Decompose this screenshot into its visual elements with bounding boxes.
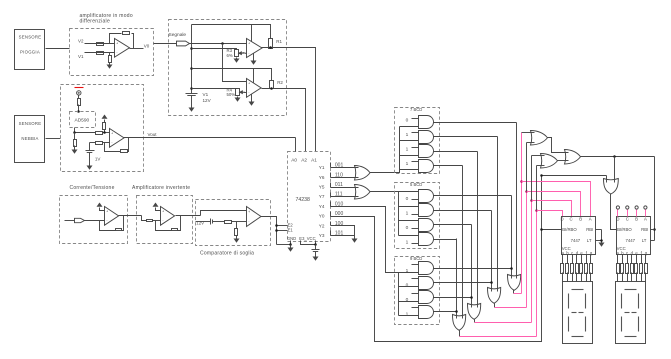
wire 9 BCD feeder xyxy=(398,273,400,316)
pin GND wire xyxy=(290,241,292,245)
wire 9 BCD feeder branch xyxy=(399,301,419,303)
wire resistor to AD590 xyxy=(78,105,80,112)
wire V0 output xyxy=(130,48,144,50)
wire ORD2 out to chip2 xyxy=(611,194,617,230)
svg-text:BI/RBO: BI/RBO xyxy=(562,227,577,232)
block box comparators Segnale xyxy=(169,20,287,116)
constant 1 stub xyxy=(412,161,419,163)
wire rail top to R1 xyxy=(192,25,271,39)
battery 12V xyxy=(210,219,212,225)
wire Y4 to 9BCD select xyxy=(331,207,419,273)
op-amp U6 inverting xyxy=(161,207,175,226)
resistor segment a xyxy=(617,264,620,274)
wire vcc to resistor xyxy=(104,120,106,123)
ground xyxy=(249,102,255,106)
junction xyxy=(314,243,317,246)
svg-text:Y1: Y1 xyxy=(319,165,325,170)
wire R3 wiper to minus xyxy=(243,53,247,54)
svg-text:0: 0 xyxy=(406,118,409,124)
svg-text:RBI: RBI xyxy=(641,227,648,232)
net label 001 xyxy=(330,163,332,168)
wire chip1 RBI xyxy=(596,229,602,231)
decoder 7447 U9 xyxy=(617,217,651,255)
ground xyxy=(251,61,257,65)
wire Y7 to OR2 xyxy=(331,196,359,198)
svg-text:E1: E1 xyxy=(288,228,294,233)
wire net0 to pin D xyxy=(537,211,563,217)
resistor threshold xyxy=(225,221,232,224)
svg-text:-: - xyxy=(162,219,163,223)
op-amp U5 current to voltage xyxy=(105,207,119,226)
wire 7 BCD feeder branch xyxy=(400,155,419,157)
svg-text:V0: V0 xyxy=(144,43,150,48)
constant 0 stub xyxy=(412,199,419,201)
wire U4 supply xyxy=(253,69,255,83)
or-gate ORBt tens logic xyxy=(541,154,558,169)
wire AD590 out xyxy=(75,128,96,133)
wire net1 to pin C xyxy=(532,201,572,217)
wire net0 to ORBt bottom xyxy=(537,165,545,167)
wire 5 BCD feeder xyxy=(398,192,400,236)
wire ORB out xyxy=(474,320,476,323)
svg-text:7447: 7447 xyxy=(626,238,636,243)
junction xyxy=(270,87,273,90)
resistor feedback U5 xyxy=(116,229,122,231)
wire port to U5 minus xyxy=(85,220,105,222)
wire net1 pink column xyxy=(531,201,533,323)
wire col 5out3 down xyxy=(471,225,473,308)
svg-text:12V: 12V xyxy=(203,98,212,103)
and-gate 5 BCD bit0 xyxy=(419,190,434,203)
wire col 7out1 down xyxy=(516,123,518,279)
constant 1 stub xyxy=(412,264,419,266)
svg-text:+: + xyxy=(116,42,118,46)
resistor segment c xyxy=(571,264,574,274)
wire segment pin d xyxy=(576,255,578,264)
resistor series plus xyxy=(96,132,103,135)
wire ORBt out xyxy=(558,160,569,162)
svg-text:V2: V2 xyxy=(78,39,84,44)
svg-text:Y4: Y4 xyxy=(319,204,325,209)
ground xyxy=(352,239,358,243)
wire 7 BCD out0 xyxy=(434,122,517,124)
ground xyxy=(189,108,195,112)
pin stub C xyxy=(627,210,629,217)
wire minus input xyxy=(90,142,96,144)
block box misura temperatura xyxy=(61,85,144,172)
pin VCC wire xyxy=(315,241,317,245)
wire ORCt out to RBI xyxy=(581,156,655,158)
svg-text:1: 1 xyxy=(406,147,409,153)
wire Y3 unused xyxy=(331,235,355,237)
junction xyxy=(470,296,473,299)
wire ORA out xyxy=(459,331,461,337)
constant 0 stub xyxy=(412,278,419,280)
wire net1 to ORBt top xyxy=(532,155,545,157)
wire 7 BCD out2 xyxy=(434,151,478,153)
junction xyxy=(190,47,193,50)
svg-text:A: A xyxy=(644,217,647,222)
svg-text:-: - xyxy=(106,219,107,223)
wire 7 BCD out1 xyxy=(434,136,498,138)
wire col 7out2 down xyxy=(497,137,499,292)
wire 5 BCD feeder branch xyxy=(399,235,419,237)
constant 0 stub xyxy=(412,228,419,230)
wire 5 BCD feeder branch xyxy=(399,220,419,222)
svg-text:A: A xyxy=(589,217,592,222)
wire U1 minus to resistor xyxy=(109,53,111,56)
wire col 7out4 down xyxy=(462,166,464,319)
svg-text:Y2: Y2 xyxy=(319,223,325,228)
op-amp U1 differential xyxy=(115,39,130,58)
wire segment pin c xyxy=(572,255,574,264)
junction xyxy=(535,209,538,212)
junction xyxy=(525,190,528,193)
constant 1 stub xyxy=(412,307,419,309)
svg-text:6%: 6% xyxy=(227,53,233,58)
wire to display xyxy=(636,273,638,282)
and-gate 5 BCD bit3 xyxy=(419,233,434,246)
decoder 74238 box xyxy=(288,152,331,242)
or-gate ORB digit bit1 xyxy=(468,304,481,320)
pin E2 wire xyxy=(277,225,288,227)
and-gate 5 BCD bit1 xyxy=(419,204,434,217)
svg-text:+: + xyxy=(248,82,250,86)
block box 7 BCD xyxy=(395,108,440,174)
battery V1 12V xyxy=(186,93,198,95)
or-gate ORD2 blanking xyxy=(603,179,618,195)
svg-text:1: 1 xyxy=(406,311,409,317)
wire segment pin b xyxy=(622,255,624,264)
svg-text:-: - xyxy=(248,51,249,55)
resistor feedback U2 xyxy=(121,150,128,153)
junction xyxy=(520,180,523,183)
pin stub A xyxy=(645,210,647,217)
svg-text:V1: V1 xyxy=(203,92,209,97)
resistor segment b xyxy=(566,264,569,274)
wire segment pin f xyxy=(641,255,643,264)
net label 000 xyxy=(330,212,332,217)
wire segment pin b xyxy=(567,255,569,264)
wire battery stub xyxy=(196,221,211,223)
svg-text:differenziale: differenziale xyxy=(80,19,111,25)
svg-text:D: D xyxy=(616,217,619,222)
constant 1 stub xyxy=(412,132,419,134)
and-gate 7 BCD bit3 xyxy=(419,160,434,173)
svg-text:-: - xyxy=(111,141,112,145)
wire U6 out xyxy=(176,215,201,217)
wire segment pin a xyxy=(562,255,564,264)
wire net3 to pin A xyxy=(522,182,591,217)
wire Y0 net to chip1 BI xyxy=(542,229,562,231)
wire vcc to plus xyxy=(156,208,161,211)
wire V+ rail xyxy=(191,25,193,94)
wire col 5out2 down xyxy=(491,211,493,292)
sensor box SENSORE NEBBIA xyxy=(15,116,45,163)
wire Y0 net branch to ORD2 xyxy=(542,175,607,177)
svg-text:+: + xyxy=(162,210,164,214)
svg-text:RBI: RBI xyxy=(586,227,593,232)
junction xyxy=(77,110,80,113)
resistor to ground xyxy=(74,140,77,147)
wire net0 pink column xyxy=(536,211,538,337)
svg-text:E3_VCC: E3_VCC xyxy=(299,236,315,241)
and-gate 9 BCD bit0 xyxy=(419,262,434,275)
wire to U6 xyxy=(153,220,161,222)
or-gate ORAt tens logic xyxy=(531,131,548,146)
wire net2 upper xyxy=(526,143,528,192)
wire RBI column chip2 xyxy=(654,157,656,241)
svg-text:GND: GND xyxy=(287,236,296,241)
wire col 5out1 down xyxy=(511,196,513,279)
ground xyxy=(234,239,240,243)
ground xyxy=(288,248,294,252)
display 7-segment xyxy=(616,282,646,344)
decoder 7447 U8 xyxy=(562,217,596,255)
wire net1 upper xyxy=(531,156,533,201)
wire segment pin e xyxy=(581,255,583,264)
junction xyxy=(510,267,513,270)
wire 9 BCD out0 xyxy=(434,268,512,270)
pin stub D xyxy=(617,210,619,217)
wire col 5out4 down xyxy=(456,239,458,319)
wire R4 wiper to minus xyxy=(244,92,247,94)
wire V1 input xyxy=(85,52,115,54)
ground xyxy=(235,98,241,102)
vcc arrow U6 plus xyxy=(153,203,159,207)
wire Y1 to OR1 xyxy=(331,167,359,169)
wire feedback U5 xyxy=(100,221,116,231)
junction xyxy=(540,174,543,177)
svg-text:Y6: Y6 xyxy=(319,175,325,180)
resistor segment d xyxy=(631,264,634,274)
resistor R1 xyxy=(269,39,273,49)
svg-text:LT: LT xyxy=(587,238,592,243)
resistor segment e xyxy=(635,264,638,274)
power supply red mark xyxy=(75,87,84,89)
wire to display xyxy=(590,273,592,282)
wire battery to resistor xyxy=(213,221,225,223)
wire into port xyxy=(154,43,177,45)
svg-text:C: C xyxy=(626,217,629,222)
wire U3 minus supply xyxy=(253,54,255,61)
wire U5 out xyxy=(119,215,142,217)
svg-text:B: B xyxy=(579,217,582,222)
wire to ground xyxy=(236,236,238,239)
svg-text:A1: A1 xyxy=(311,158,317,163)
wire to display xyxy=(645,273,647,282)
wire vcc to plus xyxy=(100,208,105,211)
svg-text:+: + xyxy=(248,210,250,214)
wire net0 upper xyxy=(536,166,538,211)
svg-text:SENSORE: SENSORE xyxy=(19,34,42,39)
resistor segment f xyxy=(640,264,643,274)
wire 7 BCD feeder branch xyxy=(400,169,419,171)
and-gate 7 BCD bit2 xyxy=(419,145,434,158)
ground xyxy=(72,150,78,154)
svg-text:Segnale: Segnale xyxy=(169,32,187,38)
wire ORD out pink xyxy=(514,293,522,295)
svg-text:D: D xyxy=(560,217,563,222)
svg-text:-: - xyxy=(248,220,249,224)
svg-text:Corrente/Tensione: Corrente/Tensione xyxy=(70,185,115,191)
wire chip1 LT xyxy=(596,240,602,242)
wire to display xyxy=(627,273,629,282)
svg-text:R1: R1 xyxy=(276,39,282,44)
junction xyxy=(613,155,616,158)
op-amp comparator U4 xyxy=(247,79,262,98)
battery 1V xyxy=(89,143,91,151)
wire 7 BCD out3 xyxy=(434,165,463,167)
resistor segment a xyxy=(561,264,564,274)
or-gate ORC digit bit2 xyxy=(488,288,501,304)
resistor series minus xyxy=(96,142,103,145)
resistor segment c xyxy=(626,264,629,274)
junction xyxy=(540,228,543,231)
ground xyxy=(107,65,113,69)
wire 9 BCD out1 xyxy=(434,282,492,284)
wire U4 output to A2 xyxy=(262,89,306,152)
junction xyxy=(653,228,656,231)
junction xyxy=(269,46,272,49)
wire sensore nebbia to block xyxy=(46,138,61,140)
wire to display xyxy=(572,273,574,282)
wire to display xyxy=(617,273,619,282)
wire 5 BCD out2 xyxy=(434,224,472,226)
wire to display xyxy=(567,273,569,282)
resistor to ground U1 xyxy=(109,56,112,63)
block box amplificatore invertente xyxy=(137,196,193,244)
svg-text:+: + xyxy=(248,42,250,46)
wire ORD2 left input xyxy=(606,176,608,183)
resistor segment f xyxy=(585,264,588,274)
svg-text:-: - xyxy=(116,50,117,54)
wire to display xyxy=(576,273,578,282)
svg-text:R2: R2 xyxy=(277,80,283,85)
resistor R2 xyxy=(270,81,274,89)
svg-text:AD590: AD590 xyxy=(75,117,90,123)
resistor input U6 xyxy=(147,220,153,222)
and-gate 9 BCD bit1 xyxy=(419,277,434,290)
svg-text:9 BCD: 9 BCD xyxy=(410,256,422,261)
or-gate OR2 Y5+Y7 xyxy=(355,185,371,200)
wire net2 to ORA bottom xyxy=(527,142,535,144)
resistor bias AD590 xyxy=(78,99,81,106)
wire segment pin g xyxy=(645,255,647,264)
svg-text:50%: 50% xyxy=(227,92,236,97)
wire segment pin e xyxy=(636,255,638,264)
wire 5 BCD out3 xyxy=(434,239,457,241)
display 7-segment xyxy=(563,282,593,344)
wire feedback U2 xyxy=(105,143,121,152)
wire down to resistor xyxy=(74,133,76,140)
and-gate 7 BCD bit1 xyxy=(419,131,434,144)
and-gate 7 BCD bit0 xyxy=(419,116,434,129)
block box 5 BCD xyxy=(395,183,440,249)
op-amp U2 temperature xyxy=(110,129,125,148)
potentiometer R4 50% xyxy=(236,89,240,96)
svg-text:1V: 1V xyxy=(95,157,101,162)
wire chip1 RBI/LT down xyxy=(601,230,603,243)
net label 111 xyxy=(330,193,332,197)
block box 9 BCD xyxy=(395,257,440,325)
wire to display xyxy=(586,273,588,282)
wire OR2 out to 5BCD xyxy=(370,191,419,193)
svg-text:0: 0 xyxy=(406,196,409,202)
wire 9 BCD out3 xyxy=(434,311,457,313)
wire net2 pink column xyxy=(526,192,528,308)
ground xyxy=(87,166,93,170)
svg-text:NEBBIA: NEBBIA xyxy=(21,136,38,141)
svg-text:Y7: Y7 xyxy=(319,194,325,199)
resistor feedback U1 xyxy=(123,32,130,35)
junction xyxy=(275,224,278,227)
net label 011 xyxy=(330,183,332,188)
wire net3 to ORA top xyxy=(522,132,535,134)
svg-text:PIOGGIA: PIOGGIA xyxy=(20,49,40,54)
wire rail to R2 xyxy=(192,69,272,81)
wire ORC out xyxy=(494,304,496,308)
svg-text:5 BCD: 5 BCD xyxy=(410,182,422,187)
wire port to comparator plus xyxy=(190,43,247,45)
wire 5 BCD feeder branch xyxy=(399,206,419,208)
wire enables to gnd node xyxy=(277,244,291,246)
wire divider down xyxy=(236,222,238,229)
svg-text:0: 0 xyxy=(406,225,409,231)
resistor segment d xyxy=(576,264,579,274)
wire ORA out pink xyxy=(460,336,537,338)
potentiometer R3 6% xyxy=(235,50,239,57)
wire segment pin f xyxy=(586,255,588,264)
svg-text:0: 0 xyxy=(406,282,409,288)
wire U3 output to A1 xyxy=(262,48,316,152)
svg-text:A0: A0 xyxy=(291,158,297,163)
op-amp comparator U7 threshold xyxy=(247,207,262,227)
junction xyxy=(530,199,533,202)
svg-text:74238: 74238 xyxy=(296,197,311,203)
svg-text:12V: 12V xyxy=(196,220,204,225)
wire 7 BCD feeder branch xyxy=(400,126,419,128)
and-gate 5 BCD bit2 xyxy=(419,219,434,232)
net label 110 xyxy=(330,173,332,178)
wire to ground xyxy=(74,146,76,150)
wire R2 to output xyxy=(271,88,273,89)
svg-text:Y3: Y3 xyxy=(319,233,325,238)
wire rail to R3 xyxy=(192,49,237,50)
block box comparatore di soglia xyxy=(196,200,271,246)
wire to U7 minus xyxy=(232,221,247,223)
wire Y6 to OR1 xyxy=(331,177,359,179)
wire R4 to ground xyxy=(237,97,239,98)
wire 7 BCD feeder branch xyxy=(400,140,419,142)
vcc arrow pull-up xyxy=(102,115,108,119)
svg-text:BI/RBO: BI/RBO xyxy=(617,227,632,232)
constant 1 stub xyxy=(412,243,419,245)
svg-text:1: 1 xyxy=(406,240,409,246)
input circle A xyxy=(644,206,647,209)
wire feedback U6 xyxy=(156,221,172,231)
wire ORAt out xyxy=(548,138,569,153)
pin E3 wire xyxy=(301,241,316,245)
wire ORD out xyxy=(513,290,515,294)
vcc arrow U5 plus xyxy=(97,203,103,207)
wire jog to U7 plus xyxy=(201,211,247,216)
wire to op-amp plus xyxy=(103,132,110,134)
svg-text:1: 1 xyxy=(406,268,409,274)
wire Vout xyxy=(124,137,296,139)
wire net3 pink column xyxy=(521,133,523,294)
wire pull-up to plus node xyxy=(104,130,106,133)
